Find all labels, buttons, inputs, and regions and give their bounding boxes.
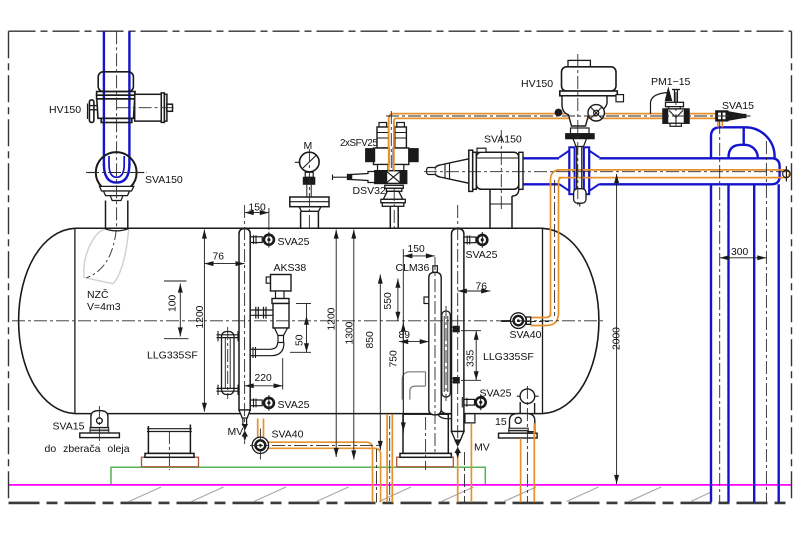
support pedestal left <box>145 425 194 458</box>
drain lug centerline left <box>98 406 100 445</box>
SVA150 right centerline <box>500 130 502 212</box>
dim 50 <box>306 316 308 353</box>
drawing border right <box>791 31 793 503</box>
LLG right centerline <box>445 306 447 401</box>
svg-text:15: 15 <box>495 416 507 428</box>
gate valve HV150 top-left <box>88 72 136 123</box>
svg-text:150: 150 <box>249 203 266 214</box>
svg-text:HV150: HV150 <box>49 104 81 116</box>
left standpipe column <box>239 229 250 424</box>
SVA40 left centerline vertical <box>259 429 261 460</box>
orange drain from MV right standpipe <box>457 457 459 503</box>
ground hatch marks <box>129 487 710 502</box>
valve SVA25 top-right <box>464 232 487 248</box>
svg-text:750: 750 <box>389 350 400 367</box>
foundation block left (brown) <box>142 457 199 467</box>
internal suction pipe (gray) <box>402 372 425 400</box>
pedestal left centerline <box>168 431 170 470</box>
dim 150 right <box>403 255 435 257</box>
SVA150 left centerline <box>86 172 147 174</box>
orange SVA40 left drain run <box>258 419 381 503</box>
svg-text:76: 76 <box>213 252 225 263</box>
pressure gauge M <box>290 152 329 228</box>
svg-text:SVA40: SVA40 <box>510 329 542 341</box>
orange heating line through main pipe <box>531 170 790 326</box>
orange drain from bottom nozzle <box>470 423 472 502</box>
level gauge LLG335SF right <box>442 311 451 397</box>
svg-text:AKS38: AKS38 <box>274 262 307 274</box>
dim 750 <box>402 249 404 433</box>
vessel right weld seam <box>542 228 544 413</box>
internal inlet elbow (hidden, gray) <box>84 229 129 283</box>
black flange at blue pipe start <box>519 152 523 189</box>
dim 1200 left <box>203 230 205 412</box>
svg-text:SVA15: SVA15 <box>722 100 754 112</box>
CLM36 centerline <box>434 257 436 452</box>
right standpipe centerline <box>457 205 459 452</box>
drawing border top <box>9 30 792 32</box>
svg-text:PM1−15: PM1−15 <box>651 76 691 88</box>
M gauge centerline <box>308 149 310 228</box>
right standpipe column <box>452 229 464 440</box>
suction nozzle cone left of SVA150 <box>427 159 469 183</box>
vessel bottom nozzle step (right of pedestal) <box>452 414 475 423</box>
LLG right tap squares <box>453 326 460 333</box>
svg-text:89: 89 <box>399 330 411 341</box>
svg-text:50: 50 <box>295 334 306 346</box>
DSV32 left outlet cone <box>333 172 375 183</box>
dimension texts <box>168 203 749 385</box>
dim 850 <box>379 275 381 451</box>
svg-text:850: 850 <box>365 331 376 348</box>
SVA40 right branch centerline <box>501 321 549 323</box>
vessel left dished head <box>19 228 75 413</box>
vessel inlet nozzle pipe below SVA150 <box>104 201 129 231</box>
HV150 right centerline <box>577 54 579 207</box>
drain lug SVA15 left <box>80 411 120 438</box>
MV drain centerline <box>464 452 466 503</box>
dim 1200 mid <box>335 230 337 458</box>
valve SVA25 top-left <box>250 232 274 248</box>
vessel NZC shell top line <box>75 227 543 229</box>
svg-text:220: 220 <box>255 373 272 384</box>
foundation block right (brown) <box>397 457 454 467</box>
green level line <box>111 467 485 484</box>
ball valve SVA150 left <box>88 152 144 200</box>
actuator centerline top-left <box>117 107 175 109</box>
shut-off valve SVA150 right <box>469 148 519 191</box>
pilot line centerline <box>386 115 751 117</box>
dim 150 left <box>245 212 269 214</box>
inlet pipe centerline <box>116 31 118 228</box>
level transmitter column CLM36 <box>424 266 441 415</box>
orange vessel bottom drain pair <box>387 414 392 502</box>
svg-text:2xSFV25: 2xSFV25 <box>340 138 378 149</box>
svg-text:150: 150 <box>408 244 425 255</box>
AKS38 side connection to standpipe <box>250 307 273 319</box>
dim 2000 <box>616 174 618 484</box>
valve SVA25 bottom-left <box>250 395 274 411</box>
safety valve SFV25 right <box>393 123 418 171</box>
valve SVA25 bottom-right <box>462 394 485 410</box>
trunnion circle on support 15 <box>520 389 535 404</box>
SVA40 left drain centerline vertical <box>376 449 378 503</box>
svg-text:do zberača oleja: do zberača oleja <box>45 443 130 455</box>
blue control valve flanges and cones HV150 <box>559 147 599 194</box>
vessel drain centerline <box>389 416 391 503</box>
support pedestal right <box>400 414 451 457</box>
svg-text:1200: 1200 <box>327 307 338 330</box>
svg-text:CLM36: CLM36 <box>396 262 430 274</box>
blue inlet pipe top-left <box>104 31 129 182</box>
svg-text:V=4m3: V=4m3 <box>87 301 121 313</box>
dim 335 <box>475 331 477 381</box>
PM1-15 centerline <box>675 92 677 129</box>
changeover valve DSV32 body <box>375 171 407 184</box>
orange pilot line upper run <box>389 114 716 171</box>
svg-text:NZČ: NZČ <box>87 288 109 301</box>
svg-text:100: 100 <box>168 295 179 312</box>
dimension lines <box>164 174 766 484</box>
SVA40 left branch centerline <box>250 444 380 446</box>
safety valve SFV25 left <box>366 123 389 171</box>
svg-text:MV: MV <box>228 426 244 438</box>
orange pilot drop centerline <box>390 111 392 170</box>
svg-text:SVA25: SVA25 <box>278 236 310 248</box>
drain needle valve MV left <box>242 424 248 442</box>
orange pilot drop overlay <box>389 120 394 171</box>
dim 550 <box>397 279 399 321</box>
orange drain pair at support 15 <box>521 423 535 502</box>
svg-text:DSV32: DSV32 <box>353 185 386 197</box>
svg-text:M: M <box>304 140 313 152</box>
safety valve pipe centerline <box>393 188 395 228</box>
svg-text:SVA25: SVA25 <box>466 249 498 261</box>
svg-text:MV: MV <box>474 442 490 454</box>
blue gooseneck riser pair <box>711 127 775 158</box>
main pipe centerline <box>424 171 790 173</box>
svg-text:LLG335SF: LLG335SF <box>147 350 198 362</box>
vessel outlet riser pipe <box>490 189 519 228</box>
sliding support 15 (right) <box>499 402 538 438</box>
svg-text:LLG335SF: LLG335SF <box>483 351 534 363</box>
DSV32 lower flanges and reducer <box>381 185 406 228</box>
level switch AKS38 <box>266 275 291 343</box>
vessel shell bottom line <box>75 413 543 415</box>
orange end cap symbol <box>783 166 791 181</box>
dim 100 <box>179 284 181 337</box>
gooseneck left centerline <box>719 121 721 503</box>
blue main vapour pipe <box>520 158 780 184</box>
dim 76 right <box>458 290 491 292</box>
magenta liquid level line <box>9 484 792 486</box>
pressure reducing valve PM1-15 <box>651 89 690 126</box>
valve SVA40 left <box>252 437 268 453</box>
spray fitting SVA15 top-right <box>716 111 750 121</box>
LLG left centerline <box>227 327 229 399</box>
svg-text:SVA15: SVA15 <box>53 421 85 433</box>
orange drop to blue gooseneck (SVA15) <box>718 121 722 127</box>
svg-text:SVA25: SVA25 <box>278 399 310 411</box>
AKS38 bottom elbow to standpipe <box>250 343 284 359</box>
support 15 centerline <box>526 386 528 503</box>
svg-text:550: 550 <box>383 292 394 309</box>
drain needle valve MV right <box>454 441 461 459</box>
blue downcomer pipes to ground <box>711 184 779 502</box>
dim 89 <box>399 341 429 343</box>
svg-text:1300: 1300 <box>345 321 356 344</box>
dim 300 <box>720 257 767 259</box>
svg-text:335: 335 <box>466 350 477 367</box>
svg-text:76: 76 <box>476 282 488 293</box>
HV150 right valve stem and bottom boss <box>574 147 586 207</box>
pedestal right centerline <box>425 417 427 470</box>
svg-text:HV150: HV150 <box>521 78 553 90</box>
svg-text:SVA25: SVA25 <box>480 388 512 400</box>
control valve HV150 right actuator <box>560 60 624 101</box>
heating line riser centerline <box>554 180 556 316</box>
svg-text:SVA40: SVA40 <box>272 429 304 441</box>
HV150 right valve bonnet and handwheel <box>555 96 607 147</box>
drawing border left <box>8 31 10 503</box>
ground line <box>9 502 792 505</box>
vessel right dished head <box>543 228 599 413</box>
vessel centerline <box>12 320 604 322</box>
svg-text:1200: 1200 <box>195 305 206 328</box>
svg-text:300: 300 <box>731 247 748 258</box>
dim 220 <box>245 385 283 387</box>
vessel left weld seam <box>74 228 76 413</box>
svg-text:2000: 2000 <box>612 327 623 350</box>
dim 76 left <box>204 263 244 265</box>
side actuator of HV150 top-left <box>135 93 173 123</box>
left standpipe centerline <box>244 205 246 447</box>
svg-text:SVA150: SVA150 <box>484 134 522 146</box>
gooseneck right centerline <box>765 141 767 503</box>
valve SVA40 right on shell <box>502 313 531 329</box>
level gauge LLG335SF left <box>217 331 240 395</box>
svg-text:SVA150: SVA150 <box>145 174 183 186</box>
internal inlet elbow centerline <box>87 230 117 278</box>
CLM36 bottom elbow to standpipe <box>438 411 452 419</box>
dim 1300 <box>353 230 355 460</box>
